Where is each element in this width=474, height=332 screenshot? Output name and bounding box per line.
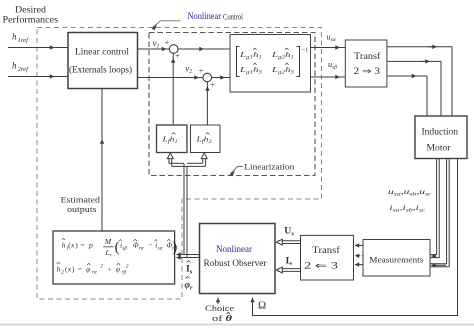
svg-text:+: + (107, 265, 111, 274)
svg-text:−1: −1 (302, 47, 309, 54)
svg-text:rα: rα (139, 246, 144, 252)
svg-text:Robust Observer: Robust Observer (204, 258, 267, 268)
svg-text:+: + (165, 38, 170, 47)
svg-text:): ) (172, 240, 177, 256)
svg-text:Transf: Transf (312, 245, 340, 255)
svg-text:Measurements: Measurements (369, 254, 424, 264)
svg-text:Nonlinear: Nonlinear (188, 11, 222, 21)
svg-text:φ: φ (86, 265, 90, 274)
svg-text:M: M (104, 237, 112, 246)
svg-text:sβ: sβ (122, 246, 127, 252)
svg-text:Performances: Performances (3, 14, 59, 24)
svg-text:rα: rα (92, 270, 97, 276)
svg-text:Motor: Motor (427, 143, 451, 153)
svg-text:2 ⇒ 3: 2 ⇒ 3 (354, 66, 381, 76)
svg-text:Linear control: Linear control (75, 47, 130, 57)
svg-text:Linearization: Linearization (244, 161, 295, 171)
svg-text:2: 2 (61, 270, 64, 276)
svg-text:Ω: Ω (258, 300, 266, 312)
svg-text:rβ: rβ (122, 270, 127, 276)
svg-text:+: + (210, 81, 215, 90)
svg-text:1ref: 1ref (18, 37, 30, 44)
svg-text:h: h (62, 241, 66, 250)
svg-text:p: p (88, 241, 93, 250)
svg-text:Transf: Transf (354, 51, 381, 61)
svg-text:2: 2 (126, 264, 129, 270)
svg-text:outputs: outputs (67, 204, 97, 214)
svg-text:2: 2 (100, 264, 103, 270)
svg-text:h: h (12, 32, 17, 42)
svg-text:Choice: Choice (205, 303, 234, 313)
svg-text:Nonlinear: Nonlinear (216, 244, 252, 254)
svg-text:(: ( (115, 240, 120, 256)
svg-text:+: + (199, 67, 204, 76)
svg-text:of θ: of θ (212, 313, 233, 323)
svg-text:Desired: Desired (15, 4, 47, 14)
svg-text:2 ⇐ 3: 2 ⇐ 3 (304, 260, 339, 270)
svg-text:+: + (175, 52, 180, 61)
svg-text:=: = (81, 241, 85, 250)
svg-text:sα: sα (158, 246, 163, 252)
svg-text:(Externals loops): (Externals loops) (69, 65, 132, 75)
svg-text:2ref: 2ref (18, 66, 30, 73)
svg-text:=: = (78, 265, 82, 274)
svg-text:φ: φ (116, 265, 120, 274)
svg-text:h: h (12, 61, 17, 71)
svg-text:Induction: Induction (422, 127, 459, 137)
svg-text:−: − (148, 241, 152, 250)
svg-text:h: h (57, 265, 61, 274)
svg-text:Control: Control (223, 13, 244, 22)
